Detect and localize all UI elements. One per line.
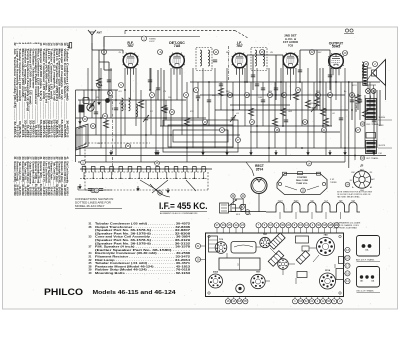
wire bus xyxy=(160,125,332,127)
wire xyxy=(176,69,178,100)
wire xyxy=(155,90,157,156)
tube V5 OUTPUT 50A5 xyxy=(328,53,344,75)
small switch fragment right of IF heading xyxy=(220,199,241,213)
dotted loop connection line across top xyxy=(125,30,235,32)
svg-text:150 Ω: 150 Ω xyxy=(246,214,252,216)
capacitor xyxy=(207,100,211,102)
capacitor C2 loop trimmer xyxy=(90,104,94,106)
wire xyxy=(295,68,297,148)
wire xyxy=(124,68,126,135)
callout 15 xyxy=(250,120,255,125)
antenna symbol xyxy=(88,30,96,43)
svg-text:OSC & I.F. TRANS.: OSC & I.F. TRANS. xyxy=(356,289,374,292)
ground xyxy=(306,150,309,155)
socket note text xyxy=(337,192,372,199)
junction xyxy=(208,81,210,83)
callout 19 xyxy=(282,93,287,98)
callout 10 xyxy=(203,120,208,125)
loudspeaker cone xyxy=(372,60,386,86)
wire xyxy=(135,68,137,126)
oscillator coil L2 xyxy=(136,104,138,117)
wire xyxy=(87,68,89,100)
resistor xyxy=(323,118,328,126)
callout 28 xyxy=(94,188,99,193)
resistor xyxy=(248,108,253,116)
second transformer detail (banded) xyxy=(366,133,377,154)
ground xyxy=(78,119,81,124)
callout 34 on-off switch xyxy=(240,205,245,210)
wire left rail xyxy=(75,90,77,162)
svg-text:35Y4: 35Y4 xyxy=(256,167,264,171)
dashed IF can T2 xyxy=(251,48,267,71)
capacitor xyxy=(231,118,235,120)
svg-text:7B7: 7B7 xyxy=(236,44,242,48)
junction xyxy=(91,89,93,91)
tube V2 DET-OSC 7A8 xyxy=(169,53,185,75)
components above connections note xyxy=(78,186,112,190)
callout 6 xyxy=(150,93,155,98)
svg-text:7A8: 7A8 xyxy=(174,44,180,48)
resistor xyxy=(138,100,143,108)
svg-text:I.F.= 455 KC.: I.F.= 455 KC. xyxy=(159,201,208,212)
small rounded box near antenna coil xyxy=(83,98,89,104)
oscillator coil rounded box xyxy=(231,242,256,254)
svg-text:MODEL 46-124 ONLY: MODEL 46-124 ONLY xyxy=(75,204,105,208)
tube V3 I.F. 7B7 xyxy=(232,53,248,75)
junction xyxy=(165,117,167,119)
svg-text:PHILCO: PHILCO xyxy=(44,287,83,297)
svg-text:20: 20 xyxy=(297,88,300,92)
antenna coupling wires xyxy=(92,37,123,101)
callout 28 xyxy=(364,62,369,67)
wire xyxy=(268,68,270,162)
wire AVC bus xyxy=(76,117,207,119)
chassis internal wiring traces xyxy=(227,247,335,284)
callout 19 volume control xyxy=(245,210,250,215)
svg-text:10M: 10M xyxy=(258,97,262,99)
extra resistors xyxy=(161,105,166,113)
wire xyxy=(244,68,246,126)
speaker wires xyxy=(367,67,371,69)
wire xyxy=(319,68,321,110)
svg-text:ANT: ANT xyxy=(97,31,103,35)
wire xyxy=(170,68,172,148)
svg-text:22: 22 xyxy=(311,50,314,54)
dial drive drum xyxy=(251,178,267,213)
band strip main wire xyxy=(80,168,212,170)
junction xyxy=(170,134,172,136)
svg-text:37: 37 xyxy=(237,138,240,142)
wire xyxy=(192,68,194,148)
callout 39 xyxy=(231,194,235,198)
callout 18 xyxy=(275,128,280,133)
callout 1 xyxy=(142,36,147,41)
IF transformer T2 windings xyxy=(255,50,257,66)
speaker output coil xyxy=(362,62,364,78)
line cord resistor branch xyxy=(228,199,266,212)
svg-text:P.M.: P.M. xyxy=(379,153,383,155)
tube socket 7A8 xyxy=(317,238,335,256)
wire B+ bus xyxy=(190,81,380,83)
wire xyxy=(120,100,122,148)
right margin part number marks xyxy=(378,117,392,155)
wire xyxy=(83,90,85,118)
dial lamps pair xyxy=(365,85,376,93)
tube V4 2ND DET-A.V.C-1ST AUDIO 7C6 xyxy=(283,53,299,75)
junction xyxy=(348,81,350,83)
extra grounds xyxy=(97,100,100,105)
scan speckle texture xyxy=(5,29,395,307)
trimmer arrows xyxy=(89,101,95,108)
svg-text:16: 16 xyxy=(261,50,264,54)
svg-text:15: 15 xyxy=(251,120,254,124)
svg-text:5A5: 5A5 xyxy=(360,280,363,283)
junction xyxy=(354,155,356,157)
svg-text:28 AT FRONT, 30 AT REAR.: 28 AT FRONT, 30 AT REAR. xyxy=(334,226,358,229)
resistor xyxy=(293,92,298,100)
switch callout 39 xyxy=(91,188,95,192)
wire xyxy=(285,82,287,156)
svg-text:7C6: 7C6 xyxy=(288,43,294,47)
callout 40 xyxy=(241,194,245,198)
chassis left edge callouts xyxy=(195,243,205,262)
callout 30 xyxy=(83,117,88,122)
wire xyxy=(130,69,132,100)
svg-text:TUBE VOL.: TUBE VOL. xyxy=(296,183,308,185)
wire xyxy=(330,68,332,126)
antenna RF trans punching box xyxy=(357,236,380,257)
svg-text:31: 31 xyxy=(92,124,95,128)
callout 11 xyxy=(214,50,219,55)
dial cord pulley left xyxy=(278,182,281,185)
junction xyxy=(325,109,327,111)
wire ground bus xyxy=(76,155,387,157)
svg-text:FIL: FIL xyxy=(350,180,353,182)
svg-text:SPEAKER: SPEAKER xyxy=(355,102,358,112)
wire xyxy=(226,68,228,156)
dashed stub top xyxy=(85,142,150,144)
svg-text:Dial Cord Assembly .... 45-291: Dial Cord Assembly .... 45-2914 xyxy=(65,162,69,196)
svg-text:30: 30 xyxy=(84,117,87,121)
dial cord pulley right xyxy=(322,182,325,185)
svg-text:LOOP: LOOP xyxy=(149,41,155,43)
callout 22 xyxy=(310,50,315,55)
callout 8 xyxy=(184,93,189,98)
output transformer laminations xyxy=(363,65,367,86)
svg-text:3045: 3045 xyxy=(294,201,300,203)
callout 14 xyxy=(245,93,250,98)
svg-text:35Y4: 35Y4 xyxy=(325,269,331,272)
wire xyxy=(232,82,234,148)
wire xyxy=(186,82,188,162)
callout 21 xyxy=(303,120,308,125)
svg-text:ANT & R.F. TRANS.: ANT & R.F. TRANS. xyxy=(356,258,375,261)
callout 4 xyxy=(108,91,113,96)
junction xyxy=(344,147,346,149)
svg-text:32-8306: 32-8306 xyxy=(379,117,386,119)
junction xyxy=(301,147,303,149)
wire xyxy=(290,69,292,100)
svg-text:50A5: 50A5 xyxy=(213,271,219,274)
svg-text:7A8 TUBE. SEE AT DETAIL.: 7A8 TUBE. SEE AT DETAIL. xyxy=(337,196,361,199)
strip ground arrows xyxy=(78,184,81,189)
svg-text:7B7: 7B7 xyxy=(127,44,133,48)
svg-text:29: 29 xyxy=(344,51,347,55)
dial scale frequency labels xyxy=(278,201,356,203)
misc chassis parts xyxy=(209,236,345,280)
tuning condenser rectangle xyxy=(219,258,260,270)
wire xyxy=(340,82,342,148)
callout 15 xyxy=(301,188,306,193)
wire bus xyxy=(76,147,371,149)
wire xyxy=(110,68,112,118)
capacitor xyxy=(114,108,118,110)
svg-text:SPKR: SPKR xyxy=(379,125,385,127)
capacitor xyxy=(358,100,362,102)
coil diagonal 3 xyxy=(296,251,309,264)
dial cord inner texts xyxy=(285,177,319,190)
resistor xyxy=(184,118,189,126)
capacitor xyxy=(164,108,168,110)
wire xyxy=(274,82,276,148)
callout 20 xyxy=(296,88,301,93)
wire xyxy=(202,68,204,156)
dial cord pulleys xyxy=(283,172,287,175)
loop aerial xyxy=(76,124,88,150)
wire xyxy=(79,100,81,156)
solid junction blob xyxy=(105,98,110,103)
callout 5 xyxy=(119,83,124,88)
switch wiper diagonals xyxy=(140,180,162,193)
svg-text:S-7056: S-7056 xyxy=(125,104,127,110)
wire xyxy=(115,90,117,156)
ground xyxy=(154,150,157,155)
tube socket 35Y4 xyxy=(320,273,336,289)
wire bus xyxy=(76,89,119,91)
top right pilot mark xyxy=(345,29,348,32)
ground xyxy=(109,150,112,155)
svg-text:11: 11 xyxy=(215,50,218,54)
callout 16 xyxy=(260,50,265,55)
wire filament bus xyxy=(78,161,345,163)
loop to tube1 wire with arrowhead xyxy=(103,37,105,48)
svg-text:OSC. TRANS.: OSC. TRANS. xyxy=(366,123,379,126)
wire xyxy=(165,100,167,120)
IF can diagonal 2 xyxy=(268,251,284,267)
svg-text:Mounting Bolts . . . . . . . .: Mounting Bolts . . . . . . . . . . . . .… xyxy=(95,271,191,275)
wire xyxy=(91,43,93,118)
wire from strip down-right to I.F. heading xyxy=(150,184,170,197)
callout 17 xyxy=(268,93,273,98)
tube V1 R.F. 7B7 xyxy=(123,53,139,75)
junction xyxy=(319,81,321,83)
svg-text:B+: B+ xyxy=(352,187,354,189)
svg-text:DIAL CORD: DIAL CORD xyxy=(296,179,309,182)
wire xyxy=(250,82,252,156)
resistor xyxy=(305,100,310,108)
svg-text:41: 41 xyxy=(65,157,69,160)
wire xyxy=(364,95,366,148)
tuning gang rotor symbol xyxy=(87,104,94,111)
callout 23 xyxy=(316,93,321,98)
switch contact staples xyxy=(81,167,207,180)
wire xyxy=(160,68,162,126)
callout 29 xyxy=(343,51,348,56)
wire xyxy=(197,82,199,118)
ground xyxy=(343,150,346,155)
callout 31 xyxy=(91,124,96,129)
chassis bottom edge callouts xyxy=(225,297,342,304)
wire xyxy=(325,82,327,156)
callout 13 xyxy=(228,93,233,98)
parts list (bottom middle) xyxy=(89,222,191,276)
tube socket 7C6 xyxy=(215,242,227,254)
resistor xyxy=(218,88,223,96)
IF secondary condensers xyxy=(213,60,217,62)
svg-text:34: 34 xyxy=(104,114,107,118)
callout 26 xyxy=(350,93,355,98)
callout 37 xyxy=(236,138,241,143)
tube socket 50A5 xyxy=(209,274,223,288)
wire speaker lead xyxy=(354,95,356,160)
resistor xyxy=(103,120,108,128)
IF can diagonal 1 xyxy=(269,233,285,249)
wire xyxy=(100,68,102,148)
svg-text:117V: 117V xyxy=(352,85,357,87)
svg-text:12: 12 xyxy=(221,128,224,132)
IF transformer T1 windings xyxy=(200,50,202,66)
dial pointer scale comb xyxy=(266,202,360,212)
grid coupling wires between tubes xyxy=(150,50,380,148)
svg-text:ALIGNMENT OF ALL I.F. COMP: ALIGNMENT OF ALL I.F. COMPENSATORS xyxy=(160,212,198,215)
callout 36 xyxy=(170,110,175,115)
callout 34 xyxy=(103,114,108,119)
wire rail to output transformer xyxy=(348,82,350,168)
ground xyxy=(225,150,228,155)
loudspeaker note (right of chassis top) xyxy=(334,221,362,229)
resistor xyxy=(362,110,367,118)
callout 12 xyxy=(220,128,225,133)
wire xyxy=(376,90,378,148)
parts list column upper left (rotated) xyxy=(13,43,69,139)
wire xyxy=(95,90,97,135)
wire xyxy=(369,82,371,110)
parts list column lower left (rotated) xyxy=(13,157,69,196)
ground xyxy=(201,150,204,155)
junction xyxy=(256,125,258,127)
wire xyxy=(359,82,361,120)
wire xyxy=(307,68,309,156)
junction xyxy=(197,99,199,101)
vertical coil pair xyxy=(122,98,124,111)
callout 33 xyxy=(360,156,364,160)
callout 2 xyxy=(373,62,378,67)
callout 32 xyxy=(360,122,364,126)
switch callout 35 xyxy=(155,161,160,166)
capacitor xyxy=(94,112,98,114)
wire bus xyxy=(215,109,348,111)
wire bus xyxy=(76,134,241,136)
switch callout 5 xyxy=(81,160,86,165)
wire xyxy=(335,70,337,101)
output transformer detail (banded) xyxy=(366,96,377,120)
dashed IF can T1 xyxy=(196,48,212,71)
wire xyxy=(301,82,303,126)
junction xyxy=(244,81,246,83)
osc IF trans punching box xyxy=(357,267,380,288)
wire xyxy=(214,68,216,148)
callout 34 xyxy=(345,182,350,187)
svg-text:27: 27 xyxy=(357,128,360,132)
svg-text:36-1578: 36-1578 xyxy=(379,145,386,147)
svg-text:28: 28 xyxy=(365,62,368,66)
callout 14 dial lamp xyxy=(307,161,312,166)
tube socket 7B7 xyxy=(251,274,265,288)
wire xyxy=(239,69,241,110)
svg-text:3123: 3123 xyxy=(278,201,284,203)
dashed box right edge xyxy=(207,172,209,190)
wire xyxy=(145,100,147,148)
wire xyxy=(220,82,222,110)
wire speaker return xyxy=(385,86,387,101)
callout 9 xyxy=(194,88,199,93)
band switch strip lower dashed wire xyxy=(80,178,208,180)
capacitor xyxy=(312,108,316,110)
electrolytic condenser block xyxy=(79,105,84,112)
svg-text:49 Ω: 49 Ω xyxy=(236,214,241,216)
junction xyxy=(145,134,147,136)
wire top feed xyxy=(104,36,200,38)
wire xyxy=(262,82,264,126)
resistor xyxy=(272,118,277,126)
svg-text:3 1/2: 3 1/2 xyxy=(330,179,334,181)
wire xyxy=(181,68,183,135)
wire xyxy=(256,68,258,148)
capacitor xyxy=(144,118,148,120)
callout 35 xyxy=(126,144,131,149)
junction xyxy=(124,89,126,91)
wire xyxy=(140,90,142,162)
capacitor xyxy=(284,120,288,122)
junction xyxy=(335,81,337,83)
wire xyxy=(313,82,315,148)
junction dots extra xyxy=(246,81,248,83)
capacitor xyxy=(339,118,343,120)
svg-text:Tubular Condenser (.006 mfd) .: Tubular Condenser (.006 mfd) ...........… xyxy=(65,49,69,138)
junction xyxy=(232,109,234,111)
chassis outline xyxy=(206,233,344,297)
svg-text:POINTER: POINTER xyxy=(297,177,307,179)
nested wiring loop rectangles xyxy=(163,120,238,152)
svg-text:TURNS: TURNS xyxy=(330,182,337,184)
svg-text:36: 36 xyxy=(171,110,174,114)
switch callout 19 xyxy=(158,191,162,195)
callout 25 xyxy=(328,93,333,98)
extra capacitors xyxy=(107,80,111,82)
band switch strip upper dashed wire xyxy=(85,171,205,173)
junction xyxy=(280,81,282,83)
capacitor xyxy=(196,96,200,98)
svg-text:-56V: -56V xyxy=(268,91,273,93)
wire xyxy=(280,68,282,110)
ground xyxy=(249,150,252,155)
chassis top edge callouts xyxy=(214,223,339,233)
junction xyxy=(186,147,188,149)
wire xyxy=(344,68,346,162)
tube socket bottom view xyxy=(350,169,376,193)
leader lines from comb to callouts xyxy=(280,212,341,219)
svg-text:35: 35 xyxy=(127,144,130,148)
